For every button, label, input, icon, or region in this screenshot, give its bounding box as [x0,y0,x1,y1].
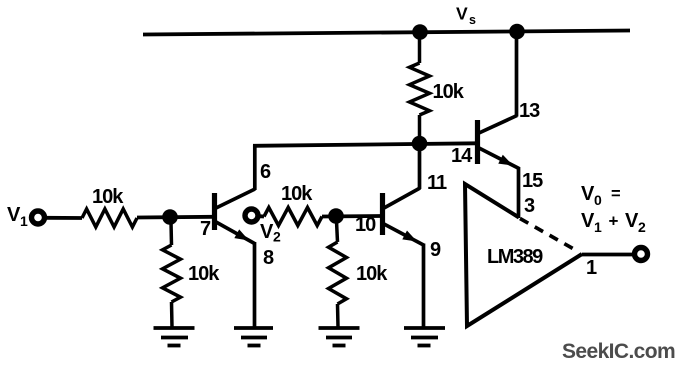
svg-text:15: 15 [522,170,543,192]
svg-text:11: 11 [427,172,447,194]
svg-text:V: V [625,210,639,232]
svg-text:+: + [609,212,619,231]
svg-text:V: V [581,183,595,205]
wire V1 to R1 [45,216,82,220]
ground for Q1 emitter [234,328,273,346]
node B junction V2 network [328,208,344,224]
svg-text:10k: 10k [356,263,388,285]
svg-text:1: 1 [586,257,597,279]
svg-text:V: V [581,210,595,232]
svg-text:V: V [7,204,21,226]
transistor Q3 emitter with arrow [479,148,519,218]
node A junction V1 network [162,209,178,225]
resistor R2 10k shunt to ground [163,222,181,327]
svg-text:13: 13 [519,100,540,122]
transistor Q3 collector [479,31,517,133]
terminal V1 input circle [32,211,45,224]
svg-text:7: 7 [200,218,211,240]
svg-text:14: 14 [451,145,473,167]
node rail junction at R3 top [412,24,428,40]
resistor R1 10k series input V1 [82,209,137,227]
wire horizontal from Q1 collector to Q3 base through node C [253,143,476,146]
svg-text:9: 9 [430,239,441,261]
svg-text:3: 3 [524,195,535,217]
wire R1 to Q1 base [137,215,213,219]
svg-text:10: 10 [355,214,376,236]
svg-text:10k: 10k [433,81,465,103]
ground for R5 [319,328,360,346]
ground for Q2 emitter [404,328,445,346]
transistor Q3 base bar [475,120,480,164]
transistor Q1 collector [216,145,255,208]
resistor R5 10k shunt to ground [329,221,347,327]
svg-text:1: 1 [20,213,28,229]
svg-text:10k: 10k [281,183,313,205]
terminal Vo output circle [635,248,648,261]
transistor Q1 emitter with arrow [216,222,255,328]
node rail junction at Q3 collector [509,24,525,40]
wire power rail Vs [143,31,630,35]
node C junction of R3 and Q2/Q3 bases [412,136,428,152]
svg-text:10k: 10k [188,263,220,285]
svg-text:=: = [611,185,620,203]
svg-text:6: 6 [260,161,271,183]
svg-text:SeekIC.com: SeekIC.com [562,340,675,363]
op-amp U1 LM389 triangle [465,184,582,326]
svg-text:8: 8 [263,247,274,269]
ground for R2 [154,328,195,346]
svg-text:2: 2 [638,219,646,235]
wire V2 to R4 [259,214,264,218]
terminal V2 input circle [245,209,258,222]
transistor Q2 base bar [380,193,385,235]
wire op-amp output [582,253,634,257]
svg-text:10k: 10k [92,186,124,208]
resistor R3 10k vertical from rail [410,32,430,144]
resistor R4 10k series input V2 [264,208,322,226]
transistor Q1 base bar [212,193,217,230]
svg-text:1: 1 [594,219,602,235]
transistor Q2 emitter with arrow [384,224,424,328]
svg-text:0: 0 [594,192,602,208]
svg-text:V: V [260,221,274,243]
svg-text:LM389: LM389 [487,246,543,268]
svg-text:V: V [456,4,468,24]
svg-text:s: s [469,13,476,27]
svg-text:2: 2 [273,229,281,245]
transistor Q2 collector [384,146,420,208]
wire R4 to Q2 base [322,214,380,218]
